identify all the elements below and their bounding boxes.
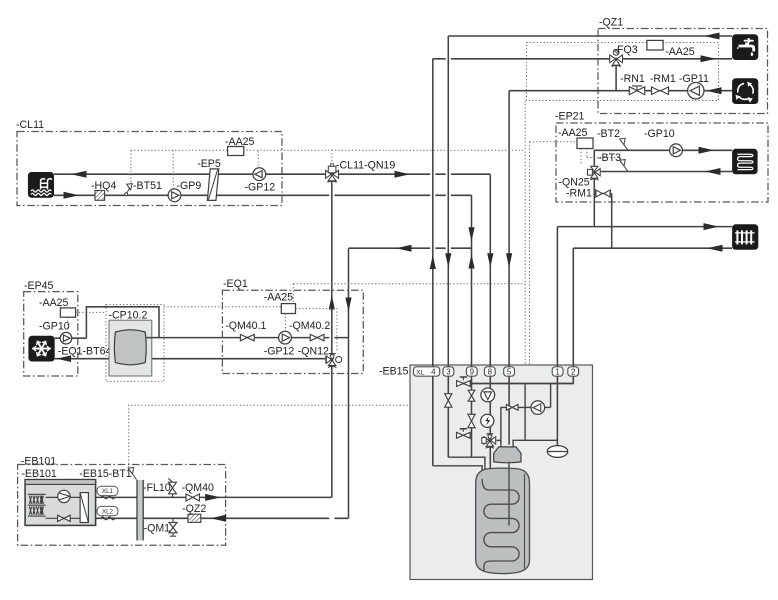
svg-text:5: 5	[507, 368, 512, 377]
valve on hot water line	[506, 405, 518, 411]
wire expansion vessel branch	[513, 384, 557, 447]
svg-text:-QM1: -QM1	[144, 523, 171, 535]
wire cold water y36	[448, 35, 732, 37]
control wire dotted to GP12	[257, 151, 259, 168]
port label XL1	[97, 486, 118, 495]
wire riser port1 heating supply (x557)	[556, 227, 558, 446]
svg-text:-EB15: -EB15	[379, 366, 409, 378]
icon floor heating	[732, 149, 758, 175]
wire riser port3 cold-water (x448)	[447, 36, 449, 457]
svg-text:-BT51: -BT51	[133, 180, 162, 192]
control wire dotted EQ1 horizontal y284	[293, 283, 525, 285]
wire coil feed XL4	[433, 466, 482, 478]
sensor EB15-BT1	[133, 474, 137, 480]
icon pool	[28, 172, 54, 198]
arrow return west (left)	[396, 245, 412, 252]
svg-text:-GP10: -GP10	[39, 321, 70, 333]
pump GP9	[168, 189, 181, 202]
pump GP10 (EP21)	[670, 144, 683, 157]
wire EB15 top header y383.5	[456, 383, 573, 385]
wire riser XL4 hot-water (x433)	[432, 59, 434, 466]
tank CP10.2 outer panel	[109, 320, 152, 376]
box EP21 dash-dot frame	[556, 123, 768, 202]
wire riser port8 (x490)	[489, 174, 491, 469]
box EB101 dash-dot frame	[18, 465, 226, 546]
svg-text:-AA25: -AA25	[558, 127, 588, 139]
wire heating return EP21 y171.5	[601, 171, 732, 173]
expansion vessel	[547, 446, 567, 458]
shunt valve QN25	[593, 166, 595, 226]
pump GP12 (CL11)	[253, 168, 266, 181]
trim valve RN1	[629, 87, 644, 95]
icon hot water circulation	[732, 78, 758, 104]
sensor EQ1-BT64	[114, 348, 118, 354]
svg-text:-FL10: -FL10	[143, 482, 171, 494]
wire RM1 bypass	[594, 193, 611, 195]
wall lead-through	[137, 480, 143, 541]
control module AA25 (EP21)	[577, 138, 593, 149]
control wire dotted to GP9	[172, 150, 174, 188]
arrow hot water (right)	[701, 55, 717, 62]
box EB15 module background	[410, 365, 593, 580]
svg-text:-EP21: -EP21	[555, 111, 585, 123]
control wire dotted AA25 to CP10.2 box	[76, 311, 106, 313]
svg-text:-CL11-QN19: -CL11-QN19	[336, 160, 395, 172]
box EQ1 dash-dot frame	[222, 290, 363, 373]
arrow XL1 (right)	[205, 494, 221, 501]
wire radiator return y248.2 west	[349, 247, 472, 249]
svg-text:XL1: XL1	[102, 488, 114, 495]
control module AA25 (QZ1)	[647, 40, 663, 50]
icon hot water tap	[732, 34, 758, 60]
svg-text:-GP12: -GP12	[245, 181, 276, 193]
svg-text:-RN1: -RN1	[620, 73, 645, 85]
svg-text:-EQ1: -EQ1	[223, 278, 248, 290]
svg-text:2: 2	[571, 368, 575, 377]
arrow down on XL2 riser	[345, 298, 351, 312]
wire cooling return y358.7	[55, 358, 326, 360]
arrow down on port3 riser	[445, 253, 451, 267]
valve QM40	[186, 494, 199, 501]
pump hot water charge (left)	[531, 401, 545, 415]
wire radiator supply y226.6	[557, 226, 732, 228]
hose XL2	[101, 517, 115, 520]
wire XL1 pipe y497.4	[96, 496, 332, 498]
wire XL2 pipe y518.3	[96, 517, 349, 519]
port label 3	[443, 367, 454, 376]
plate heat exchanger	[80, 493, 88, 523]
port label 5	[504, 367, 515, 376]
wire circulation y90.7	[509, 90, 732, 92]
control wire dotted CP10.2 to EQ1	[164, 306, 281, 308]
mixing valve FQ3	[610, 55, 616, 63]
check valve RM1 (QZ1)	[652, 87, 660, 95]
svg-text:-HQ4: -HQ4	[91, 180, 116, 192]
svg-text:9: 9	[470, 368, 475, 377]
svg-text:-BT2: -BT2	[597, 128, 620, 140]
svg-text:-EB15-BT1: -EB15-BT1	[79, 468, 132, 480]
svg-text:-AA25: -AA25	[264, 292, 294, 304]
pump GP10 (EP45)	[60, 332, 72, 344]
arrow radiator supply (right)	[704, 223, 720, 230]
sensor BT3	[624, 166, 628, 172]
heat pump EB101 casing	[25, 480, 96, 526]
svg-text:-EB101: -EB101	[21, 468, 56, 480]
control wire dotted to QN19	[331, 150, 333, 165]
motor valve lower left	[457, 432, 471, 438]
svg-text:-GP11: -GP11	[679, 73, 709, 85]
valve upper on port9 riser	[468, 390, 475, 401]
arrow up on port9 riser	[468, 255, 474, 269]
control wire dotted to BT51	[130, 150, 132, 184]
icon radiator	[732, 224, 758, 250]
port label XL4	[414, 367, 440, 376]
arrow down on port5 riser	[506, 253, 512, 267]
svg-text:-GP10: -GP10	[644, 128, 675, 140]
immersion heater	[481, 414, 494, 427]
box QZ1 dotted control frame	[527, 43, 719, 101]
box CL11 dash-dot frame	[17, 132, 282, 206]
diverting valve QN12	[326, 356, 331, 363]
svg-text:3: 3	[446, 368, 451, 377]
svg-text:-RM1: -RM1	[566, 188, 592, 200]
compressor GQ10	[58, 490, 70, 502]
svg-text:-QZ2: -QZ2	[182, 503, 206, 515]
valve QM40.1	[240, 334, 254, 340]
wire radiator return y248.2 east	[573, 247, 732, 249]
svg-text:-GP9: -GP9	[177, 180, 202, 192]
wire pool supply y174.2	[54, 173, 490, 175]
box CP10.2 dotted frame	[106, 305, 164, 382]
svg-text:-GP12: -GP12	[264, 346, 295, 358]
box QZ1 dash-dot frame	[598, 29, 768, 114]
valve lower on port9 riser	[468, 414, 475, 428]
arrow up on XL4 riser	[430, 255, 436, 269]
wire QN10 to down pipe	[496, 439, 501, 441]
port label 1	[552, 367, 563, 376]
svg-text:4: 4	[431, 368, 436, 377]
safety valve FL10	[172, 494, 174, 497]
svg-text:-QN12: -QN12	[298, 346, 329, 358]
arrow down on port9 riser	[468, 227, 474, 241]
svg-text:-AA25: -AA25	[665, 46, 695, 58]
pump GP11	[688, 83, 704, 99]
pump GP12 (EQ1)	[279, 331, 292, 344]
filter QZ2	[188, 514, 201, 522]
svg-text:-FQ3: -FQ3	[614, 44, 638, 56]
tank centre dip pipe	[508, 462, 510, 526]
arrow XL2 (left)	[211, 515, 227, 522]
port label 2	[568, 367, 579, 376]
control wire dotted AA25-GP10	[67, 317, 69, 331]
svg-text:-QM40.1: -QM40.1	[225, 320, 266, 332]
wire hot water y58.8	[433, 58, 732, 60]
mixing valve CL11-QN19	[326, 170, 332, 178]
wire heating supply EP21 y150.3	[594, 150, 732, 166]
port label 9	[466, 367, 477, 376]
svg-text:-BT3: -BT3	[598, 152, 621, 164]
wire EQ1 supply y337.6	[159, 337, 349, 339]
port label XL2	[97, 506, 118, 515]
arrow circulation (left)	[706, 87, 722, 94]
svg-text:XL: XL	[416, 369, 425, 376]
wire pool return y195.3	[54, 194, 472, 196]
control module AA25 (EP45)	[60, 308, 75, 317]
control wire dotted CL11 horizontal y150	[131, 149, 525, 151]
arrow cooling return (left)	[57, 355, 72, 362]
tank inner wall line	[524, 474, 526, 569]
motor valve on header	[457, 381, 471, 387]
svg-text:-EQ1-BT64: -EQ1-BT64	[58, 346, 112, 358]
svg-text:-AA25: -AA25	[39, 297, 69, 309]
control wire dotted vertical x529.5	[529, 142, 531, 365]
control wire dotted EP21 horizontal y142	[530, 141, 578, 143]
control wire dotted vertical bundle x525	[524, 101, 526, 366]
svg-text:-EP5: -EP5	[197, 158, 221, 170]
icon cooling snowflake	[28, 336, 54, 362]
tank electric top vessel	[494, 447, 521, 463]
refrigerant pipes	[46, 497, 80, 518]
svg-text:-EB101: -EB101	[21, 456, 56, 468]
arrow after QN19 (right)	[395, 171, 411, 178]
svg-text:XL2: XL2	[102, 508, 114, 515]
wire hot water valve line y407.4	[501, 384, 551, 447]
wire riser XL2 (x348.5)	[348, 248, 350, 518]
svg-text:-EP45: -EP45	[24, 280, 54, 292]
wire FQ3 to circulation line	[615, 59, 617, 91]
control wire dotted AA25-EQ1 stubs	[292, 284, 294, 304]
svg-text:-QM40.2: -QM40.2	[289, 320, 330, 332]
svg-text:-QM40: -QM40	[182, 482, 214, 494]
control module AA25 (EQ1)	[281, 304, 295, 314]
drain valve QM1	[172, 518, 174, 522]
control wire dotted AA25-EP21 down to QN25	[580, 149, 582, 166]
tank water heater	[476, 468, 530, 574]
wire CP10.2 supply stub	[146, 337, 159, 339]
control wire dotted EB101 path	[129, 405, 410, 467]
svg-text:8: 8	[488, 368, 493, 377]
evaporator coil	[28, 494, 46, 516]
arrow up on XL1 riser	[329, 296, 335, 310]
valve QM40.2	[310, 334, 324, 340]
check valve RM1 (EP21)	[596, 190, 602, 197]
expansion valve	[58, 515, 71, 521]
coil serpentine	[482, 479, 519, 571]
heat exchanger EP5	[207, 169, 218, 201]
arrow radiator return (left)	[707, 245, 723, 252]
svg-text:-QZ1: -QZ1	[599, 17, 623, 29]
wire riser port5 circulation (x509)	[508, 91, 510, 445]
wire riser XL1 (x332)	[331, 181, 333, 497]
wire cooling supply bridge	[55, 307, 159, 338]
wire riser port2 heating return (x573)	[456, 248, 573, 383]
arrow return EP21 (left)	[705, 168, 721, 175]
diverting valve QN10	[484, 437, 489, 444]
valve on port3 riser	[445, 394, 452, 408]
pump charge (down)	[481, 388, 495, 402]
svg-text:1: 1	[555, 368, 559, 377]
arrow cold water (left)	[704, 33, 720, 40]
wire riser port9 (x471.5)	[471, 195, 473, 457]
sensor BT51	[125, 193, 128, 196]
svg-text:-CL11: -CL11	[16, 119, 44, 131]
control module AA25 (CL11)	[228, 147, 244, 156]
arrow pool supply (left)	[71, 171, 87, 178]
svg-text:-AA25: -AA25	[225, 136, 255, 148]
port label 8	[484, 367, 495, 376]
arrow supply EP21 (right)	[699, 147, 715, 154]
hose XL1	[101, 496, 115, 499]
arrow pool return (right)	[64, 192, 80, 199]
sensor BT2	[624, 145, 628, 151]
arrow down on port8 riser	[487, 253, 493, 267]
box EP45 dash-dot frame	[24, 292, 78, 376]
svg-text:-RM1: -RM1	[650, 73, 676, 85]
tank CP10.2 vessel	[114, 330, 146, 365]
wire coil feed port3	[448, 457, 485, 486]
